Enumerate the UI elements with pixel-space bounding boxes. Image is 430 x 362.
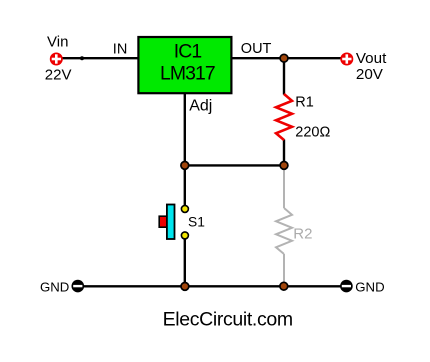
svg-text:ElecCircuit.com: ElecCircuit.com bbox=[163, 309, 293, 331]
svg-text:GND: GND bbox=[355, 280, 384, 295]
terminal GND right (-) bbox=[340, 280, 353, 293]
wire IC OUT to node bbox=[232, 57, 285, 59]
node small dot on input wire bbox=[80, 56, 84, 60]
op-amp IC1 LM317 body bbox=[138, 37, 231, 93]
wire Adj pin bbox=[184, 93, 186, 165]
switch S1 red button cap bbox=[159, 216, 167, 227]
svg-text:IN: IN bbox=[113, 42, 128, 58]
svg-text:20V: 20V bbox=[356, 66, 384, 83]
svg-text:R2: R2 bbox=[293, 225, 312, 242]
svg-text:220Ω: 220Ω bbox=[295, 124, 330, 140]
svg-text:Vin: Vin bbox=[47, 34, 68, 51]
wire middle horizontal bbox=[185, 164, 284, 166]
switch S1 top contact bbox=[181, 205, 188, 212]
svg-text:22V: 22V bbox=[45, 66, 72, 83]
junction node R2-ground bbox=[280, 282, 288, 290]
wire node to switch S1 top bbox=[184, 165, 186, 205]
junction node at OUT bbox=[280, 54, 288, 62]
wire ground rail bbox=[83, 285, 341, 287]
wire input Vin to IC IN bbox=[62, 57, 139, 59]
svg-text:GND: GND bbox=[40, 280, 69, 295]
junction node R1-R2 bbox=[280, 162, 288, 170]
wire node to Vout terminal bbox=[284, 57, 341, 59]
svg-text:LM317: LM317 bbox=[160, 63, 215, 85]
terminal Vin (+) bbox=[50, 53, 63, 66]
resistor R2 top lead (greyed) bbox=[283, 166, 285, 209]
terminal GND left (-) bbox=[72, 280, 85, 293]
junction node switch-ground bbox=[181, 283, 189, 291]
wire switch S1 bottom to ground rail bbox=[184, 239, 186, 286]
svg-text:Adj: Adj bbox=[189, 98, 212, 115]
svg-text:IC1: IC1 bbox=[174, 40, 202, 62]
switch S1 bottom contact bbox=[181, 232, 188, 239]
svg-text:Vout: Vout bbox=[356, 50, 387, 67]
switch S1 push button: cyan actuator bbox=[167, 205, 175, 240]
wire R1 bottom lead bbox=[283, 140, 285, 166]
svg-text:R1: R1 bbox=[295, 95, 314, 111]
resistor R2 bottom lead (greyed) bbox=[283, 254, 285, 286]
resistor R2 body (greyed) bbox=[276, 208, 292, 254]
resistor R1 body bbox=[276, 94, 292, 140]
junction node Adj-middle bbox=[181, 162, 189, 170]
svg-text:S1: S1 bbox=[188, 215, 205, 230]
wire R1 top lead bbox=[283, 58, 285, 94]
svg-text:OUT: OUT bbox=[241, 41, 272, 57]
terminal Vout (+) bbox=[340, 53, 353, 66]
